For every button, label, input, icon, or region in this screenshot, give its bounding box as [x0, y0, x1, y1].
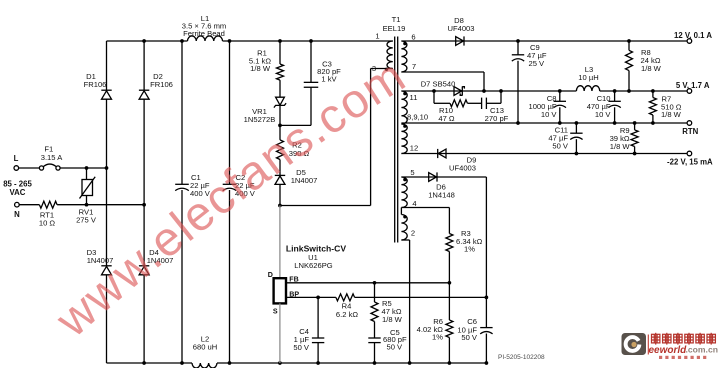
svg-text:EEL19: EEL19	[383, 24, 406, 33]
capacitor C8 1000uF 10V	[528, 91, 566, 123]
label PI-5205-102208	[498, 354, 545, 361]
svg-text:2: 2	[411, 229, 415, 238]
junction dots RV1	[85, 166, 89, 206]
wire 5V rail	[401, 89, 687, 93]
bias winding pins 4-2	[400, 208, 402, 215]
capacitor C10 470uF 10V	[587, 91, 621, 123]
zener VR1 1N5272B	[244, 97, 286, 124]
resistor R1 5.1 kohm 1/8 W	[249, 49, 284, 81]
wire BP net	[286, 296, 488, 300]
svg-text:1/8 W: 1/8 W	[641, 64, 662, 73]
resistor R6 4.02 kohm 1%	[417, 283, 453, 363]
capacitor C5 680 pF 50 V	[368, 328, 407, 363]
svg-text:Ferrite Bead: Ferrite Bead	[183, 29, 225, 38]
primary winding pins 1-3	[387, 41, 393, 69]
svg-text:.com.cn: .com.cn	[686, 344, 718, 354]
svg-text:1/8 W: 1/8 W	[382, 315, 403, 324]
wire FB net	[286, 281, 451, 285]
svg-text:UF4003: UF4003	[449, 163, 476, 172]
svg-text:6.2 kΩ: 6.2 kΩ	[336, 310, 358, 319]
node N input terminal	[14, 202, 20, 219]
logo eeworld	[622, 333, 718, 359]
svg-text:L: L	[14, 154, 19, 163]
svg-text:-22 V, 15 mA: -22 V, 15 mA	[667, 157, 713, 166]
inductor L1 ferrite bead	[182, 14, 227, 41]
svg-text:VAC: VAC	[10, 188, 26, 197]
svg-text:270 pF: 270 pF	[485, 114, 509, 123]
node 5V output terminal	[676, 81, 710, 93]
svg-text:UF4003: UF4003	[447, 24, 474, 33]
svg-text:47 Ω: 47 Ω	[438, 114, 455, 123]
wire clamp bottom link	[278, 124, 311, 128]
label 85-265 VAC	[3, 180, 32, 198]
wire L row	[19, 167, 107, 169]
node -22V output terminal	[667, 151, 713, 166]
svg-text:12 V, 0.1 A: 12 V, 0.1 A	[674, 31, 712, 40]
wire bias pin5 row	[401, 177, 486, 297]
resistor R7 510 ohm 1/8 W	[649, 91, 681, 123]
svg-text:FR106: FR106	[150, 80, 173, 89]
svg-text:D7 SB540: D7 SB540	[421, 79, 456, 88]
resistor R2 390 ohm	[277, 140, 310, 160]
svg-text:N: N	[14, 210, 20, 219]
svg-text:T1: T1	[392, 15, 401, 24]
wire RTN rail	[401, 121, 687, 125]
svg-text:5: 5	[410, 168, 414, 177]
svg-text:LNK626PG: LNK626PG	[294, 261, 333, 270]
diode D2 FR106	[139, 72, 173, 99]
node L input terminal	[14, 154, 19, 170]
wire bias pin2 column	[401, 240, 409, 363]
secondary winding pins 6-7	[401, 41, 407, 72]
svg-text:S: S	[273, 308, 278, 316]
svg-text:FR106: FR106	[84, 80, 107, 89]
resistor R5 47 kohm 1/8 W	[371, 283, 403, 338]
svg-text:1N5272B: 1N5272B	[244, 115, 276, 124]
svg-text:10 Ω: 10 Ω	[39, 219, 56, 228]
capacitor C6 10uF 50V	[457, 297, 492, 363]
svg-text:1: 1	[375, 32, 379, 41]
wire drain node	[278, 69, 371, 208]
secondary winding pins 11-8,9,10	[401, 91, 407, 124]
transformer core	[394, 37, 396, 243]
svg-text:680 uH: 680 uH	[193, 343, 218, 352]
resistor R4 6.2 kohm	[336, 294, 358, 319]
capacitor C13 270 pF snubber	[467, 91, 508, 123]
svg-text:4: 4	[412, 199, 416, 208]
resistor R8 24 kohm 1/8 W	[626, 41, 662, 93]
resistor R9 39 kohm 1/8 W	[610, 123, 639, 154]
secondary winding pins 8,9,10-12	[401, 124, 407, 154]
transformer T1 EEL19	[371, 15, 429, 243]
watermark www.elecfans.com	[46, 49, 416, 348]
svg-text:1/8 W: 1/8 W	[250, 64, 271, 73]
svg-text:1/8 W: 1/8 W	[661, 110, 682, 119]
svg-text:1 kV: 1 kV	[321, 75, 337, 84]
inductor L3 10uH	[576, 65, 599, 91]
wire bridge column D1/D3	[106, 41, 108, 363]
capacitor C1 22uF 400V	[175, 41, 211, 363]
resistor R3 6.34 kohm 1%	[446, 208, 483, 283]
svg-text:eeworld: eeworld	[649, 345, 688, 356]
junction dots bridge AC nodes	[105, 166, 146, 206]
svg-text:PI-5205-102208: PI-5205-102208	[498, 354, 545, 361]
svg-text:1N4148: 1N4148	[428, 191, 455, 200]
junction dots top rail	[142, 39, 313, 43]
wire pin 7 to 5V rail	[401, 72, 484, 91]
wire DC+ top rail	[107, 40, 393, 42]
diode D8 UF4003	[447, 16, 474, 45]
capacitor C4 1uF 50V	[293, 297, 324, 363]
wire U1 drain lead	[279, 206, 281, 279]
wire clamp column	[279, 41, 281, 206]
svg-text:1%: 1%	[464, 245, 475, 254]
svg-text:10 µH: 10 µH	[578, 73, 598, 82]
bias winding pins 5-4	[401, 177, 407, 207]
junction dots bottom rail	[142, 361, 488, 365]
thermistor RT1 10 ohm	[39, 201, 57, 227]
wire U1 source lead	[279, 303, 281, 363]
resistor R10 47 ohm snubber	[434, 91, 467, 123]
svg-text:50 V: 50 V	[552, 142, 569, 151]
svg-text:7: 7	[412, 62, 416, 71]
svg-text:25 V: 25 V	[529, 59, 546, 68]
svg-text:10 V: 10 V	[595, 110, 612, 119]
svg-text:1N4007: 1N4007	[291, 176, 318, 185]
svg-text:8,9,10: 8,9,10	[407, 113, 428, 122]
wire pin 3 stub	[371, 68, 393, 70]
svg-text:D: D	[268, 271, 273, 279]
svg-text:50 V: 50 V	[387, 343, 404, 352]
capacitor C3 820 pF 1 kV	[304, 41, 341, 125]
diode D3 1N4007	[87, 248, 114, 275]
diode D1 FR106	[84, 72, 112, 99]
svg-text:50 V: 50 V	[293, 343, 310, 352]
op-amp U1 LNK626PG box	[268, 244, 347, 316]
svg-text:10 V: 10 V	[541, 110, 558, 119]
diode D7 SB540	[421, 79, 465, 95]
svg-text:6: 6	[411, 33, 415, 42]
svg-text:12: 12	[410, 144, 418, 153]
capacitor C9 47uF 25V	[512, 41, 547, 125]
svg-text:1/8 W: 1/8 W	[610, 142, 631, 151]
inductor L2 680 uH	[192, 335, 217, 369]
diode D9 UF4003	[438, 149, 477, 172]
svg-text:1%: 1%	[432, 332, 443, 341]
svg-text:3.15 A: 3.15 A	[41, 153, 63, 162]
wire bias pin4 row	[401, 207, 449, 209]
wire N row	[19, 204, 144, 206]
capacitor C11 47uF 50V	[548, 123, 582, 154]
varistor RV1 275 V	[76, 168, 97, 225]
diode D4 1N4007	[139, 248, 173, 275]
svg-text:RTN: RTN	[682, 127, 698, 136]
svg-text:50 V: 50 V	[461, 333, 478, 342]
diode D5 1N4007	[275, 168, 318, 185]
wire 12V rail	[401, 39, 687, 43]
node 12V output terminal	[674, 31, 712, 43]
node RTN output terminal	[682, 121, 698, 136]
capacitor C2 22uF 400V	[223, 41, 256, 363]
diode D6 1N4148	[428, 172, 455, 199]
wire DC- bottom rail	[107, 362, 487, 364]
fuse F1 3.15 A	[39, 145, 63, 171]
wire bridge column D2/D4	[143, 41, 145, 363]
svg-text:5 V, 1.7 A: 5 V, 1.7 A	[676, 81, 710, 90]
wire pin 12 row and -22V rail	[401, 152, 687, 156]
svg-text:275 V: 275 V	[76, 216, 97, 225]
